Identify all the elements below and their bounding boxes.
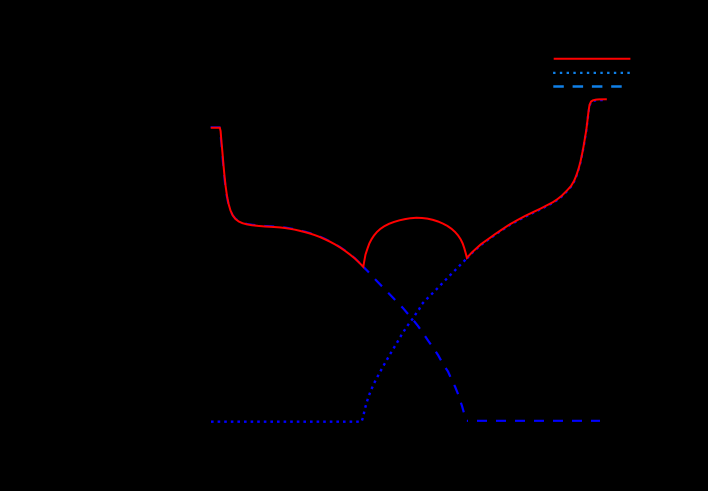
blue dashed curve, hidden section under red left branch <box>211 127 364 266</box>
red solid curve (total error) <box>211 99 607 266</box>
legend sample: blue dotted line <box>553 72 630 74</box>
blue dashed curve, visible descending section and bottom baseline <box>359 262 468 421</box>
legend sample: red solid line <box>554 58 631 60</box>
blue dotted curve, visible baseline and ascending section <box>211 258 467 422</box>
blue dashed curve, bottom baseline section <box>467 420 600 422</box>
legend sample: blue dashed line <box>553 85 630 88</box>
blue dotted curve, hidden section under red right branch <box>467 100 607 259</box>
